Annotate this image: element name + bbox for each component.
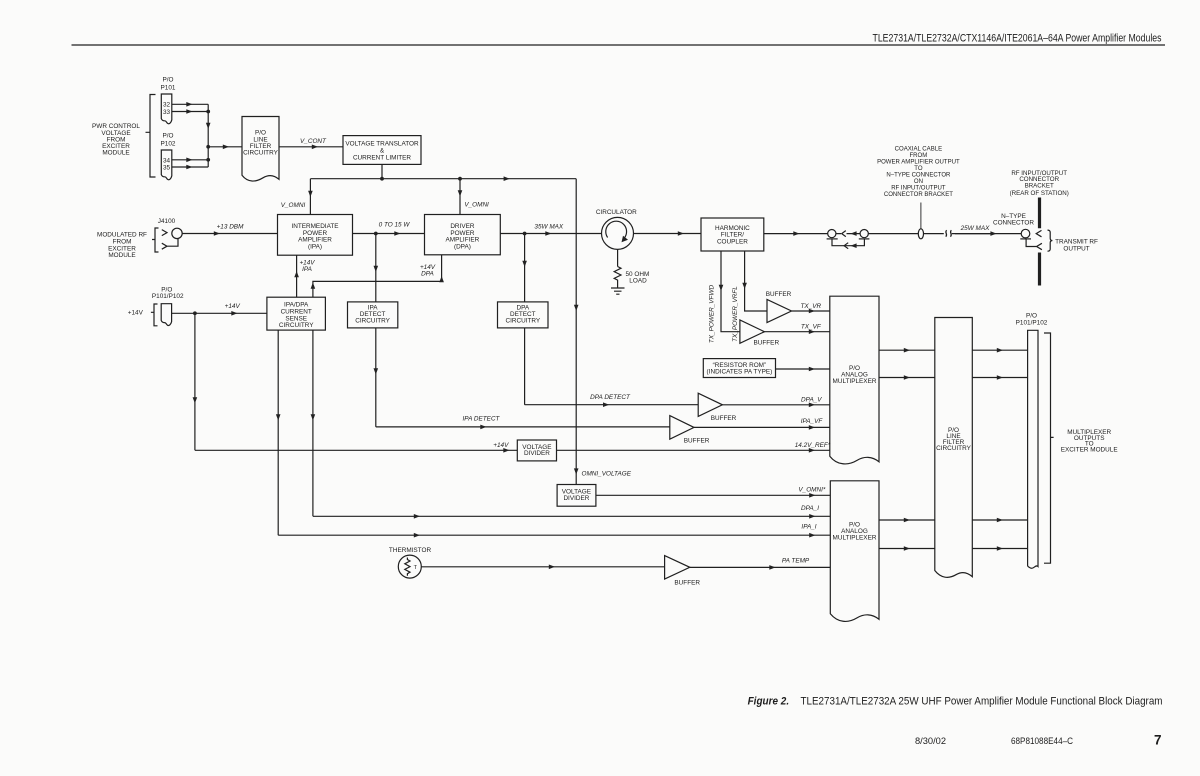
svg-text:VOLTAGE TRANSLATOR: VOLTAGE TRANSLATOR <box>345 140 419 147</box>
svg-text:0 TO 15 W: 0 TO 15 W <box>379 222 411 229</box>
svg-text:+14V: +14V <box>225 303 241 310</box>
svg-text:(IPA): (IPA) <box>308 244 322 251</box>
svg-text:(REAR OF STATION): (REAR OF STATION) <box>1010 190 1069 197</box>
svg-text:&: & <box>380 147 385 154</box>
svg-text:LOAD: LOAD <box>629 278 647 285</box>
svg-text:OMNI_VOLTAGE: OMNI_VOLTAGE <box>582 471 632 478</box>
svg-text:BRACKET: BRACKET <box>1025 183 1054 190</box>
svg-text:33: 33 <box>163 109 171 116</box>
svg-text:CONNECTOR: CONNECTOR <box>993 219 1034 226</box>
svg-text:CIRCULATOR: CIRCULATOR <box>596 209 637 216</box>
svg-text:CIRCUITRY: CIRCUITRY <box>279 322 314 329</box>
svg-text:DPA: DPA <box>421 270 434 277</box>
svg-text:P/O: P/O <box>1026 312 1037 319</box>
svg-text:P/O: P/O <box>162 132 173 139</box>
svg-text:BUFFER: BUFFER <box>674 579 700 586</box>
svg-text:TX_VF: TX_VF <box>801 323 822 330</box>
svg-text:CIRCUITRY: CIRCUITRY <box>243 150 278 157</box>
svg-text:MODULE: MODULE <box>108 252 135 259</box>
svg-text:THERMISTOR: THERMISTOR <box>389 547 432 554</box>
svg-text:P101: P101 <box>161 84 176 91</box>
svg-text:68P81088E44–C: 68P81088E44–C <box>1011 736 1073 746</box>
svg-text:34: 34 <box>163 157 171 164</box>
svg-text:MULTIPLEXER: MULTIPLEXER <box>833 535 877 542</box>
svg-text:DPA DETECT: DPA DETECT <box>590 394 631 401</box>
svg-text:+14V: +14V <box>493 442 509 449</box>
svg-text:TX_POWER_VFWD: TX_POWER_VFWD <box>708 285 715 344</box>
svg-text:P/O: P/O <box>162 76 173 83</box>
svg-text:(DPA): (DPA) <box>454 244 471 251</box>
svg-text:P101/P102: P101/P102 <box>1016 320 1048 327</box>
svg-text:DIVIDER: DIVIDER <box>563 495 589 502</box>
svg-text:32: 32 <box>163 102 171 109</box>
svg-text:+14V: +14V <box>128 310 144 317</box>
svg-text:COUPLER: COUPLER <box>717 238 748 245</box>
svg-text:TX_VR: TX_VR <box>800 303 821 310</box>
svg-text:TLE2731A/TLE2732A 25W UHF Powe: TLE2731A/TLE2732A 25W UHF Power Amplifie… <box>801 696 1163 708</box>
svg-text:FROM: FROM <box>909 153 927 159</box>
svg-text:DPA_V: DPA_V <box>801 397 822 404</box>
svg-text:N–TYPE CONNECTOR: N–TYPE CONNECTOR <box>886 172 951 178</box>
svg-text:P102: P102 <box>161 140 176 147</box>
svg-text:CIRCUITRY: CIRCUITRY <box>355 318 390 325</box>
svg-text:PA TEMP: PA TEMP <box>782 558 810 565</box>
svg-text:OUTPUT: OUTPUT <box>1063 246 1089 253</box>
svg-text:CIRCUITRY: CIRCUITRY <box>936 445 971 452</box>
svg-text:V_OMNI: V_OMNI <box>464 202 489 209</box>
svg-text:TO: TO <box>914 166 923 172</box>
svg-text:V_OMNI: V_OMNI <box>281 202 306 209</box>
svg-text:TLE2731A/TLE2732A/CTX1146A/ITE: TLE2731A/TLE2732A/CTX1146A/ITE2061A–64A … <box>873 33 1162 45</box>
svg-text:35: 35 <box>163 165 171 172</box>
svg-text:7: 7 <box>1154 733 1162 748</box>
svg-text:BUFFER: BUFFER <box>711 415 737 422</box>
svg-text:14.2V_REF*: 14.2V_REF* <box>795 442 831 449</box>
svg-text:BUFFER: BUFFER <box>684 437 710 444</box>
svg-text:TX_POWER_VRFL: TX_POWER_VRFL <box>732 286 739 342</box>
svg-text:CONNECTOR BRACKET: CONNECTOR BRACKET <box>884 192 953 198</box>
svg-text:T: T <box>414 565 418 571</box>
svg-text:DIVIDER: DIVIDER <box>524 450 550 457</box>
svg-text:(INDICATES PA TYPE): (INDICATES PA TYPE) <box>707 368 773 375</box>
svg-text:IPA DETECT: IPA DETECT <box>463 416 501 423</box>
svg-text:IPA: IPA <box>302 266 312 273</box>
svg-text:BUFFER: BUFFER <box>754 339 780 346</box>
svg-text:MULTIPLEXER: MULTIPLEXER <box>833 378 877 385</box>
svg-text:J4100: J4100 <box>158 218 176 225</box>
svg-text:BUFFER: BUFFER <box>766 291 792 298</box>
svg-text:+13 DBM: +13 DBM <box>217 224 244 231</box>
svg-text:COAXIAL CABLE: COAXIAL CABLE <box>895 147 943 153</box>
svg-text:DPA_I: DPA_I <box>801 505 819 512</box>
svg-text:RF INPUT/OUTPUT: RF INPUT/OUTPUT <box>891 185 946 191</box>
svg-text:EXCITER MODULE: EXCITER MODULE <box>1061 446 1118 453</box>
svg-text:MODULE: MODULE <box>102 150 129 157</box>
svg-text:Figure 2.: Figure 2. <box>748 696 790 708</box>
svg-text:IPA_I: IPA_I <box>801 524 816 531</box>
svg-text:CURRENT LIMITER: CURRENT LIMITER <box>353 154 411 161</box>
svg-text:25W MAX: 25W MAX <box>960 225 991 232</box>
svg-text:V_CONT: V_CONT <box>300 138 327 145</box>
svg-text:V_OMNI*: V_OMNI* <box>798 487 826 494</box>
svg-text:CIRCUITRY: CIRCUITRY <box>505 318 540 325</box>
svg-text:P101/P102: P101/P102 <box>152 293 184 300</box>
svg-text:35W MAX: 35W MAX <box>534 223 564 230</box>
svg-text:8/30/02: 8/30/02 <box>915 736 946 746</box>
svg-text:POWER AMPLIFIER OUTPUT: POWER AMPLIFIER OUTPUT <box>877 160 960 166</box>
svg-text:ON: ON <box>914 179 923 185</box>
svg-text:IPA_VF: IPA_VF <box>801 418 824 425</box>
